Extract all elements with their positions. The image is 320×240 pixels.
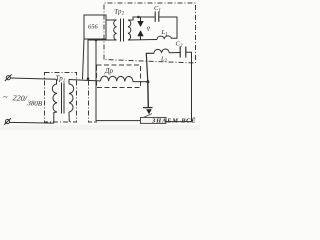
enclosure border segment (dash-dot, right of Tr1) — [88, 81, 90, 123]
wire: Tr1 primary bottom lead — [54, 112, 57, 123]
wire: terminal X1 to Tr1 primary top — [11, 78, 57, 79]
enclosure border (upper, dash-dot) — [104, 3, 196, 63]
transformer Tr1 core — [61, 83, 63, 114]
transformer Tr2 core — [120, 19, 122, 42]
terminal X2 — [4, 118, 11, 125]
wire: Tr1 primary top lead — [56, 79, 58, 84]
wire: Tr2 secondary top lead — [128, 17, 155, 20]
transformer Tr1 secondary winding — [69, 84, 74, 112]
terminal X1 — [5, 74, 12, 81]
capacitor C1 — [154, 12, 156, 22]
transformer Tr2 secondary winding — [128, 20, 131, 40]
wire: 656 box to Tr2 primary top — [106, 19, 117, 21]
wire: 656 box left lead down to middle rail — [83, 39, 85, 79]
wire: Tr2 secondary bottom lead to L1 — [128, 39, 157, 42]
wire: Tr2 primary bottom rail to down lead — [88, 40, 117, 79]
svg-text:656: 656 — [88, 24, 99, 31]
svg-text:380В: 380В — [26, 99, 43, 108]
inductor L2 — [154, 49, 169, 53]
spark stroke — [144, 114, 152, 118]
electrode arrow — [146, 109, 152, 114]
spark gap P upper electrode — [140, 17, 142, 21]
wire: middle rail from Tr1 secondary to choke — [69, 80, 101, 82]
electrode needle column — [147, 82, 150, 107]
wire: vertical from Tr2 bottom wire down to bottom rail — [96, 40, 141, 121]
inductor L1 — [157, 36, 172, 39]
choke Dr winding — [101, 76, 133, 82]
spark gap P lower electrode — [140, 36, 142, 40]
transformer Tr2 primary winding — [114, 20, 117, 40]
wire: terminal X2 to Tr1 primary bottom — [10, 121, 54, 124]
junction dot top wire / spark gap — [137, 16, 140, 19]
box 656 — [84, 15, 106, 39]
scan shading — [0, 125, 200, 130]
wire: L2 left lead down (electrode column top) — [146, 53, 154, 82]
wire: Tr1 secondary top lead to bottom rail — [68, 80, 70, 85]
svg-text:220/: 220/ — [12, 93, 27, 103]
junction dot choke/electrode column — [146, 80, 149, 83]
enclosure border choke box (dashed) — [97, 65, 141, 88]
wire: C2 to right side down to bottom plate — [166, 52, 192, 121]
wire: Tr1 secondary bottom lead — [68, 112, 70, 122]
wire: L2 right lead to C2 — [169, 52, 180, 54]
enclosure border Tr1 bottom extension — [88, 121, 97, 123]
wire: C1 to right corner down to L1 right — [159, 17, 177, 38]
enclosure border Tr1 (dash-dot) — [45, 73, 77, 123]
label ~220/380V — [3, 92, 44, 108]
workpiece block — [141, 117, 167, 123]
wire: choke to electrode column — [133, 81, 148, 83]
junction dot on Tr2 bottom wire — [95, 39, 98, 42]
junction dot on middle rail — [87, 77, 90, 80]
svg-text:Др: Др — [104, 67, 113, 75]
svg-text:ЗНАЕМ ВСЁ: ЗНАЕМ ВСЁ — [151, 117, 196, 124]
electrode T-bar — [143, 107, 153, 109]
capacitor C2 — [179, 47, 181, 58]
transformer Tr1 primary winding — [52, 84, 57, 112]
